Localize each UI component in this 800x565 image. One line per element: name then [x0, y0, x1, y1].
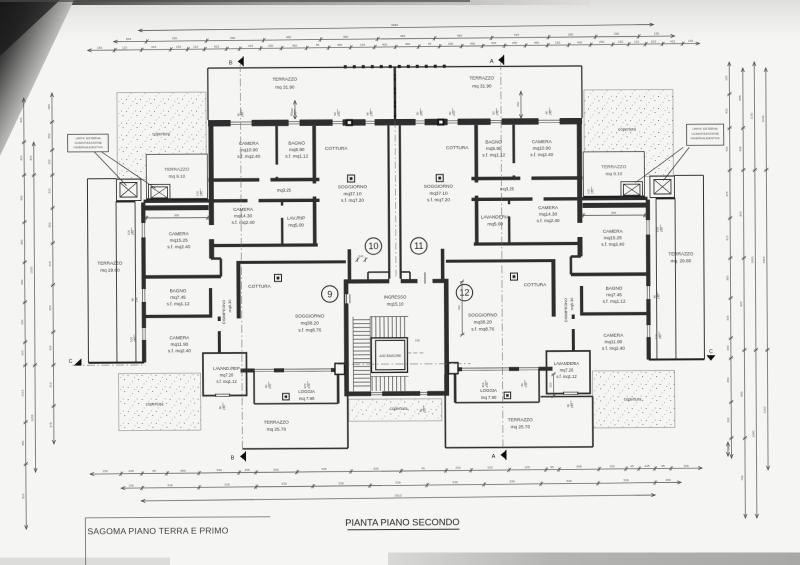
svg-text:460: 460: [400, 34, 405, 38]
svg-text:150: 150: [725, 75, 729, 80]
svg-text:880: 880: [740, 391, 744, 396]
svg-text:300: 300: [29, 155, 33, 160]
east wing outer wall: [646, 200, 651, 360]
svg-text:mq14.30: mq14.30: [539, 212, 558, 217]
svg-text:s.f. mq2.40: s.f. mq2.40: [232, 220, 255, 225]
pillar north wall right: [437, 119, 445, 126]
svg-text:400: 400: [382, 42, 387, 46]
svg-text:LAVAND./REP: LAVAND./REP: [213, 366, 240, 371]
svg-text:45: 45: [421, 466, 425, 470]
svg-text:1030: 1030: [761, 115, 765, 122]
svg-text:95: 95: [661, 464, 665, 468]
svg-text:330: 330: [726, 315, 730, 320]
svg-text:mq38.20: mq38.20: [474, 319, 493, 324]
svg-text:A: A: [492, 454, 496, 460]
corridor jog at block top: [368, 271, 389, 273]
unit 10 corridor north wall: [208, 178, 319, 182]
svg-text:415: 415: [491, 41, 496, 45]
svg-text:415: 415: [514, 33, 519, 37]
svg-text:mq7.20: mq7.20: [560, 367, 574, 372]
side terrace outline east: [703, 175, 704, 359]
svg-text:mq37.10: mq37.10: [343, 191, 362, 196]
svg-text:430: 430: [738, 146, 742, 151]
svg-text:mq 31.90: mq 31.90: [275, 85, 295, 90]
svg-text:45: 45: [316, 43, 320, 47]
section line A: [501, 62, 503, 449]
scan artifact: top dark band: [0, 0, 590, 5]
svg-text:833: 833: [214, 44, 219, 48]
svg-text:150: 150: [654, 32, 659, 36]
svg-text:95: 95: [550, 465, 554, 469]
svg-text:LAVANDERIA: LAVANDERIA: [481, 214, 511, 219]
svg-text:150: 150: [516, 101, 520, 106]
svg-text:mq 31.90: mq 31.90: [472, 83, 492, 88]
unit 12 top wall of south zone: [571, 272, 648, 276]
svg-text:BAGNO: BAGNO: [288, 141, 305, 146]
section line C left: [72, 364, 145, 366]
section flag C right: [706, 355, 715, 361]
scan shading top: [0, 0, 800, 42]
svg-text:45: 45: [630, 464, 634, 468]
window east wing camera15: [645, 220, 650, 236]
window in north wall: [538, 117, 560, 125]
svg-text:330: 330: [48, 188, 52, 193]
svg-text:330: 330: [20, 279, 24, 284]
svg-text:9: 9: [327, 289, 332, 299]
svg-text:1055: 1055: [30, 414, 34, 421]
svg-text:330: 330: [20, 319, 24, 324]
svg-text:CAMERA: CAMERA: [239, 141, 260, 146]
camera 15.25 north wall unit 11: [583, 203, 648, 208]
svg-text:250: 250: [614, 32, 619, 36]
unit 12 lavanderia room: [546, 351, 590, 394]
svg-text:mq5.00: mq5.00: [487, 221, 503, 226]
svg-text:s.f. mq1.12: s.f. mq1.12: [482, 153, 505, 158]
svg-text:460: 460: [405, 42, 410, 46]
stair treads upper flight: [371, 317, 373, 338]
svg-text:1800: 1800: [751, 256, 755, 263]
svg-text:598: 598: [576, 465, 581, 469]
AC enclosure outer west: [116, 179, 141, 201]
svg-text:183: 183: [726, 345, 730, 350]
svg-text:1100: 1100: [750, 112, 754, 119]
svg-text:CAMERA: CAMERA: [603, 229, 624, 234]
svg-text:440: 440: [457, 305, 461, 310]
svg-text:s.f. mq1.12: s.f. mq1.12: [167, 301, 190, 306]
unit number 12: [456, 284, 472, 300]
svg-text:CAMERA: CAMERA: [169, 231, 190, 236]
svg-text:460: 460: [534, 41, 539, 45]
section flag B bottom: [240, 452, 246, 461]
AC unit 2 west: [148, 184, 170, 200]
svg-text:s.f. mq1.12: s.f. mq1.12: [285, 154, 308, 159]
svg-text:INVERNALE/ESTIVA: INVERNALE/ESTIVA: [74, 145, 104, 149]
svg-text:LAVANDERIA: LAVANDERIA: [554, 361, 580, 366]
svg-text:470: 470: [725, 191, 729, 196]
svg-text:copertura: copertura: [146, 401, 164, 406]
svg-text:C: C: [709, 349, 713, 355]
svg-text:LOGGIA: LOGGIA: [298, 389, 315, 394]
terrace divider wall: [394, 67, 397, 119]
svg-text:LOGGIA: LOGGIA: [480, 388, 497, 393]
door marks west wall landing: [345, 294, 351, 303]
svg-text:150: 150: [47, 159, 51, 164]
terrace 25.70 unit 9: [242, 447, 347, 450]
window east wing bagno: [646, 286, 651, 300]
svg-text:UNITA' ESTERNA: UNITA' ESTERNA: [693, 127, 719, 131]
camera 15.25 north wall unit 10: [143, 205, 208, 210]
svg-text:DISIMPEGNO: DISIMPEGNO: [222, 300, 226, 324]
unit 10 bagno east wall: [312, 126, 316, 245]
svg-text:160: 160: [360, 43, 365, 47]
svg-text:mq 9.10: mq 9.10: [605, 171, 622, 176]
svg-text:460: 460: [343, 35, 348, 39]
svg-text:s.f. mq1.12: s.f. mq1.12: [556, 374, 577, 379]
section flag B top: [238, 57, 244, 66]
svg-text:1015: 1015: [21, 389, 25, 396]
AC unit 2 east: [621, 182, 643, 198]
window lavanderia unit 9: [216, 393, 230, 397]
svg-text:mq3.25: mq3.25: [277, 188, 292, 193]
AC unit 1 west: [120, 183, 137, 198]
svg-text:526: 526: [567, 479, 572, 483]
terrace 9.10 box east: [583, 152, 644, 197]
door-window loggia unit 9: [283, 367, 331, 372]
svg-text:BAGNO: BAGNO: [170, 288, 187, 293]
svg-text:COTTURA: COTTURA: [248, 284, 271, 289]
corridor walls to stair block: [387, 125, 390, 280]
svg-text:SAGOMA PIANO TERRA E PRIMO: SAGOMA PIANO TERRA E PRIMO: [87, 525, 228, 536]
terrace 25.70 unit 12: [445, 446, 592, 449]
small dim mark right-bottom: [727, 442, 729, 456]
section line B: [240, 64, 242, 451]
svg-text:350: 350: [568, 32, 573, 36]
svg-text:copertura: copertura: [152, 131, 170, 136]
window west wing camera11: [141, 327, 146, 340]
svg-text:mq15.25: mq15.25: [604, 235, 623, 240]
scan artifact: dark corner triangle: [0, 0, 74, 156]
svg-text:mq7.20: mq7.20: [220, 372, 234, 377]
interior dim 366: [146, 217, 208, 219]
unit 9 disimpegno-cottura wall: [236, 262, 240, 318]
door mark ingresso: [424, 272, 426, 283]
svg-text:160: 160: [555, 40, 560, 44]
stair side flight: [353, 319, 370, 321]
svg-text:SOGGIORNO: SOGGIORNO: [468, 312, 498, 317]
svg-text:880: 880: [180, 469, 185, 473]
svg-text:590: 590: [273, 468, 278, 472]
svg-text:245: 245: [644, 464, 649, 468]
roof area copertura bottom-left: [119, 373, 201, 430]
svg-text:300: 300: [19, 155, 23, 160]
svg-text:LAV./RIP: LAV./RIP: [287, 216, 305, 221]
svg-text:536: 536: [282, 482, 287, 486]
window loggia unit 9: [254, 368, 275, 373]
svg-text:DISIMPEGNO: DISIMPEGNO: [564, 298, 568, 322]
svg-text:366: 366: [611, 211, 616, 215]
svg-text:536: 536: [453, 480, 458, 484]
svg-text:350: 350: [48, 222, 52, 227]
svg-text:193: 193: [20, 350, 24, 355]
unit 10 south wall of bedroom row: [211, 243, 318, 247]
svg-text:460: 460: [48, 305, 52, 310]
svg-text:330: 330: [726, 417, 730, 422]
small dim in left terrace: [294, 101, 296, 120]
svg-text:550: 550: [487, 466, 492, 470]
svg-text:460: 460: [337, 43, 342, 47]
svg-text:415: 415: [670, 39, 675, 43]
bottom dimension chains: [90, 468, 702, 474]
unit 11 camera14-lav divider: [508, 199, 511, 244]
svg-text:TERRAZZO: TERRAZZO: [264, 420, 289, 425]
svg-text:TERRAZZO: TERRAZZO: [508, 417, 533, 422]
terrace 9.10 box west: [146, 154, 207, 199]
svg-text:110: 110: [634, 40, 639, 44]
svg-text:190: 190: [727, 445, 731, 450]
unit 11 corridor south wall: [472, 198, 648, 199]
svg-text:450: 450: [726, 377, 730, 382]
side terrace outline west: [87, 179, 88, 363]
svg-text:350: 350: [21, 440, 25, 445]
svg-text:183: 183: [47, 104, 51, 109]
svg-text:s.f. mq2.40: s.f. mq2.40: [237, 154, 260, 159]
svg-text:CLIMATIZZAZIONE: CLIMATIZZAZIONE: [75, 141, 102, 145]
svg-text:TERRAZZO: TERRAZZO: [469, 75, 494, 80]
svg-text:TERRAZZO: TERRAZZO: [97, 261, 122, 266]
unit 12 loggia box: [538, 369, 540, 402]
svg-text:415: 415: [248, 44, 253, 48]
unit 12 camera11.90 east wall: [572, 315, 575, 352]
window west wing camera15: [141, 222, 146, 238]
svg-text:400: 400: [19, 117, 23, 122]
center axis dash-dot: [395, 67, 396, 278]
svg-text:SOGGIORNO: SOGGIORNO: [295, 313, 325, 318]
svg-text:400: 400: [725, 108, 729, 113]
svg-text:460: 460: [286, 35, 291, 39]
svg-text:3935: 3935: [391, 23, 398, 27]
title block box: [85, 517, 270, 518]
svg-text:196: 196: [129, 484, 134, 488]
svg-text:copertura: copertura: [390, 406, 408, 411]
svg-text:s.f. mq2.40: s.f. mq2.40: [530, 152, 553, 157]
svg-text:s.f. mq2.40: s.f. mq2.40: [537, 218, 560, 223]
AC unit 1 east: [654, 179, 671, 194]
window lavanderia unit 12: [564, 391, 578, 395]
door-window loggia unit 12: [461, 366, 509, 371]
svg-text:110: 110: [122, 45, 127, 49]
window west wing bagno: [141, 288, 146, 302]
svg-text:s.f. mq2.40: s.f. mq2.40: [602, 346, 625, 351]
stair block outer walls: [344, 280, 349, 397]
unit 11 outer west wall: [577, 118, 583, 256]
svg-text:COTTURA: COTTURA: [325, 146, 348, 151]
label box unita esterna left: [68, 134, 109, 152]
svg-text:SOGGIORNO: SOGGIORNO: [338, 184, 368, 189]
svg-text:1680: 1680: [752, 430, 756, 437]
svg-text:ASCENSORE: ASCENSORE: [379, 354, 402, 358]
svg-text:290: 290: [172, 36, 177, 40]
svg-text:CAMERA: CAMERA: [169, 335, 190, 340]
svg-text:CAMERA: CAMERA: [538, 205, 559, 210]
svg-text:mq3.25: mq3.25: [500, 186, 515, 191]
svg-text:B: B: [229, 60, 233, 66]
svg-text:3915: 3915: [395, 493, 402, 497]
svg-text:833: 833: [126, 37, 131, 41]
svg-text:COTTURA: COTTURA: [446, 145, 469, 150]
wall stubs at C line: [335, 363, 345, 374]
svg-text:790: 790: [740, 475, 744, 480]
svg-text:150: 150: [97, 46, 102, 50]
svg-text:290: 290: [455, 466, 460, 470]
left dimension chains: [24, 98, 26, 529]
top dimension chains: [139, 25, 654, 31]
svg-text:CLIMATIZZAZIONE: CLIMATIZZAZIONE: [691, 132, 718, 136]
window in north wall: [490, 118, 502, 126]
svg-text:415: 415: [151, 45, 156, 49]
small dim in right terrace: [520, 91, 522, 118]
svg-text:536: 536: [510, 480, 515, 484]
unit 9 bagno7.45 box: [209, 288, 212, 316]
unit 9 top wall of south zone: [143, 275, 220, 279]
svg-text:mq5.00: mq5.00: [288, 222, 304, 227]
svg-text:500: 500: [21, 493, 25, 498]
roof area copertura top-left: [117, 92, 206, 180]
svg-text:mq. 29.80: mq. 29.80: [671, 258, 692, 263]
unit number 9: [322, 286, 338, 302]
svg-text:150: 150: [618, 40, 623, 44]
pillar north wall left: [346, 119, 354, 126]
svg-text:s.f. mq2.40: s.f. mq2.40: [167, 244, 190, 249]
svg-text:mq 9.10: mq 9.10: [168, 174, 185, 179]
svg-text:460: 460: [457, 34, 462, 38]
svg-text:525: 525: [373, 467, 378, 471]
svg-text:mq5.30: mq5.30: [570, 298, 574, 311]
unit 9 camera11.90 east wall: [218, 317, 221, 354]
terrace top outline TERRAZZO 31.90 x2: [207, 68, 209, 120]
svg-text:410: 410: [49, 382, 53, 387]
svg-text:mq5.90: mq5.90: [486, 146, 502, 151]
svg-text:150: 150: [609, 464, 614, 468]
svg-text:s.f. mq1.12: s.f. mq1.12: [603, 299, 626, 304]
svg-text:1200: 1200: [763, 406, 767, 413]
label box unita esterna right: [687, 124, 724, 145]
svg-text:545: 545: [321, 467, 326, 471]
svg-text:375: 375: [49, 422, 53, 427]
svg-text:12: 12: [459, 288, 469, 298]
svg-text:190: 190: [415, 338, 420, 342]
svg-text:mq10.90: mq10.90: [533, 146, 552, 151]
svg-text:mq10.90: mq10.90: [240, 147, 259, 152]
unit 9 loggia box: [253, 370, 255, 403]
svg-text:mq 25.70: mq 25.70: [511, 424, 531, 429]
svg-text:PIANTA PIANO SECONDO: PIANTA PIANO SECONDO: [345, 516, 459, 528]
svg-text:copertura: copertura: [618, 127, 636, 132]
roof area copertura bottom-right: [593, 370, 675, 427]
railing ticks on top edge: [344, 65, 347, 68]
unit 11 camera-bagno divider: [512, 125, 515, 179]
svg-text:mq5.30: mq5.30: [228, 300, 232, 313]
svg-text:mq38.20: mq38.20: [301, 320, 320, 325]
east duct shaft: [674, 198, 677, 359]
svg-text:920: 920: [739, 301, 743, 306]
svg-text:mq37.10: mq37.10: [429, 191, 448, 196]
section flag A top: [498, 55, 504, 64]
svg-text:mq11.90: mq11.90: [604, 339, 622, 344]
svg-text:mq7.45: mq7.45: [606, 292, 622, 297]
svg-text:366: 366: [174, 213, 179, 217]
svg-text:s.f. mq8.76: s.f. mq8.76: [471, 326, 494, 331]
svg-text:536: 536: [624, 478, 629, 482]
svg-text:s.f. mq7.20: s.f. mq7.20: [341, 198, 364, 203]
unit 12 soggiorno north wall: [446, 259, 555, 263]
svg-text:45: 45: [428, 42, 432, 46]
svg-text:430: 430: [725, 146, 729, 151]
small square loggia left: [283, 393, 290, 400]
unit 9 lavanderia room: [203, 353, 247, 396]
svg-text:290: 290: [448, 42, 453, 46]
window east wing camera11: [646, 325, 651, 338]
unit 10 outer west wall: [208, 120, 214, 258]
svg-text:290: 290: [230, 36, 235, 40]
svg-text:mq15.25: mq15.25: [170, 238, 189, 243]
unit 10 camera-bagno divider: [275, 126, 278, 180]
scan artifact: bottom gray bands: [388, 553, 800, 565]
roof area copertura top-right: [584, 89, 673, 177]
unit number 10: [365, 238, 381, 254]
svg-text:B: B: [231, 455, 235, 461]
window in north wall: [332, 119, 343, 127]
unit 11 corridor north wall: [471, 176, 582, 180]
svg-text:290: 290: [268, 44, 273, 48]
section flag A bottom: [500, 450, 506, 459]
svg-text:TERRAZZO: TERRAZZO: [272, 77, 297, 82]
small square loggia right: [504, 392, 511, 399]
svg-text:150: 150: [524, 465, 529, 469]
elevator ASCENSORE: [371, 338, 407, 373]
svg-text:BAGNO: BAGNO: [485, 139, 502, 144]
svg-text:150: 150: [549, 382, 553, 387]
section flag C left: [74, 358, 82, 365]
svg-text:485: 485: [19, 195, 23, 200]
svg-text:833: 833: [651, 39, 656, 43]
svg-text:s.f. mq7.20: s.f. mq7.20: [427, 197, 450, 202]
svg-text:165: 165: [244, 468, 249, 472]
svg-text:s.f. mq2.40: s.f. mq2.40: [601, 242, 624, 247]
svg-text:150: 150: [666, 478, 671, 482]
svg-text:s.f. mq1.12: s.f. mq1.12: [216, 379, 237, 384]
camera 15.25 southeast jog unit 11: [571, 255, 581, 258]
unit 11 bagno east wall: [474, 125, 478, 244]
svg-text:415: 415: [48, 261, 52, 266]
svg-text:mq 7.90: mq 7.90: [299, 396, 315, 401]
svg-text:INVERNALE/ESTIVA: INVERNALE/ESTIVA: [691, 136, 721, 140]
unit 12 bagno7.45 box: [580, 286, 583, 314]
svg-text:250: 250: [47, 133, 51, 138]
svg-text:CAMERA: CAMERA: [532, 139, 553, 144]
svg-text:350: 350: [20, 239, 24, 244]
unit 12 disimpegno-cottura wall: [551, 261, 555, 317]
window in north wall: [447, 118, 458, 126]
svg-text:SOGGIORNO: SOGGIORNO: [424, 184, 454, 189]
svg-text:330: 330: [49, 345, 53, 350]
svg-text:COTTURA: COTTURA: [524, 282, 547, 287]
svg-text:350: 350: [726, 275, 730, 280]
svg-text:536: 536: [396, 481, 401, 485]
svg-text:1800: 1800: [762, 256, 766, 263]
svg-text:526: 526: [225, 482, 230, 486]
unit 12 soggiorno south wall: [445, 367, 553, 372]
svg-text:mq15.10: mq15.10: [387, 301, 404, 306]
